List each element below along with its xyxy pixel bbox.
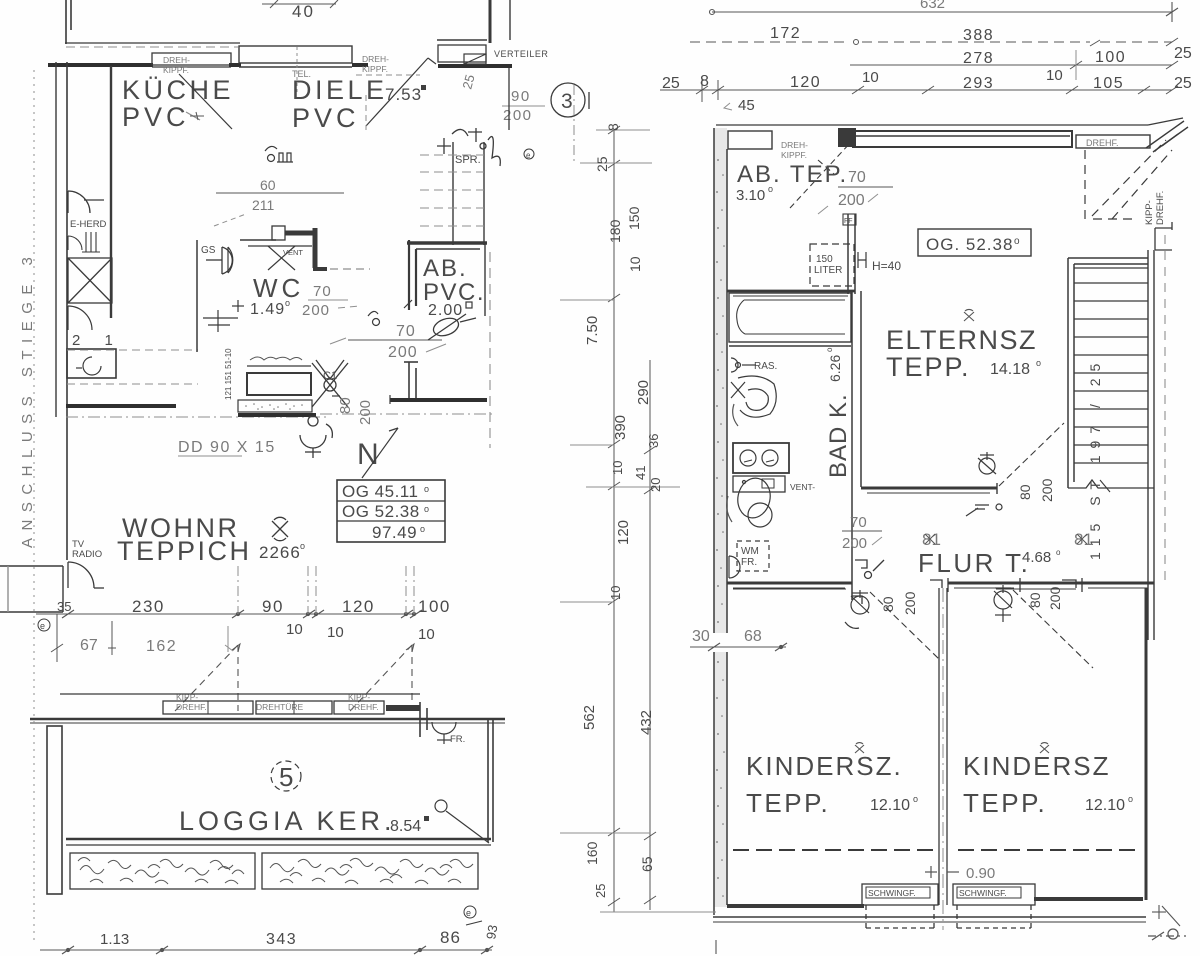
svg-text:SCHWINGF.: SCHWINGF. (868, 888, 916, 898)
svg-text:C1: C1 (323, 370, 337, 382)
svg-text:100: 100 (1095, 49, 1126, 66)
svg-text:DREH-: DREH- (781, 140, 808, 150)
node circle 3 (551, 83, 589, 117)
svg-text:8: 8 (700, 73, 709, 90)
col ticks (560, 126, 716, 912)
svg-text:200: 200 (842, 535, 867, 552)
kindersz divider wall (939, 588, 947, 905)
svg-text:25: 25 (662, 75, 680, 92)
svg-text:93: 93 (483, 924, 500, 941)
top wall band left window (728, 131, 772, 149)
wc dim 70 (308, 283, 348, 300)
label TV RADIO (72, 539, 102, 560)
label TEL. (292, 69, 311, 79)
svg-text:WC: WC (253, 273, 304, 303)
svg-text:25: 25 (1174, 75, 1192, 92)
svg-text:e: e (40, 621, 45, 631)
svg-text:KINDERSZ: KINDERSZ (963, 751, 1110, 781)
stair bottom with break (1068, 480, 1154, 492)
svg-text:90: 90 (511, 88, 531, 105)
wall corner top-right verticals (489, 0, 492, 43)
label C1 (323, 370, 337, 382)
x mark elternsz (964, 309, 974, 321)
x mark kindersz left (855, 743, 864, 753)
boiler dashed box (810, 244, 854, 286)
svg-text:DREHF.: DREHF. (348, 702, 379, 712)
svg-text:e: e (466, 908, 471, 918)
stove box with X (68, 258, 112, 303)
svg-text:LOGGIA KER.: LOGGIA KER. (179, 806, 396, 836)
E-HERD door arc (68, 191, 104, 213)
svg-text:97.49: 97.49 (372, 523, 417, 542)
wall top right segment (438, 64, 512, 68)
svg-text:7.50: 7.50 (584, 316, 601, 345)
svg-text:200: 200 (1039, 478, 1055, 502)
svg-text:120: 120 (342, 597, 375, 616)
wc east wall dark (313, 228, 318, 268)
label SCHWINGF right (959, 888, 1007, 898)
value 1.49 (250, 298, 290, 318)
switch box with slash (464, 54, 486, 64)
svg-text:10: 10 (627, 256, 643, 272)
svg-text:100: 100 (418, 597, 451, 616)
svg-text:200: 200 (503, 107, 533, 124)
x mark kindersz right (1040, 743, 1049, 753)
door swing diele (diagonal) (366, 58, 436, 126)
bottom left tick (715, 940, 717, 954)
wall diele right of window (352, 63, 368, 67)
wc inner top line (248, 245, 312, 247)
og area box (337, 480, 445, 542)
divider centerline (942, 588, 944, 930)
svg-text:70: 70 (396, 323, 416, 340)
kitchen counter upper lines (247, 365, 311, 367)
svg-text:388: 388 (963, 27, 994, 44)
svg-text:67: 67 (80, 637, 98, 654)
label LOGGIA KER (179, 806, 396, 836)
label 81 right (1074, 530, 1093, 549)
dash-dot lower (66, 416, 330, 418)
svg-text:PVC: PVC (122, 102, 190, 132)
wc dark wall top (285, 231, 313, 236)
svg-text:86: 86 (440, 928, 461, 947)
svg-text:14.18: 14.18 (990, 361, 1030, 378)
squiggles panel1 (78, 858, 244, 885)
dark sill wall right (334, 701, 384, 714)
svg-text:390: 390 (612, 415, 629, 440)
value 12.10 left (870, 794, 918, 814)
dim line 278/100 (850, 50, 1178, 80)
svg-text:30: 30 (692, 628, 710, 645)
svg-text:45: 45 (738, 97, 755, 114)
svg-text:SPR.: SPR. (455, 154, 481, 166)
faucet symbol left of wc (203, 300, 244, 332)
balcony dashed line right (958, 849, 1140, 851)
wall between windows (229, 63, 241, 67)
svg-text:1.49: 1.49 (250, 301, 285, 318)
right boundary dash (489, 252, 491, 448)
svg-text:DREH-: DREH- (362, 54, 389, 64)
top wall pillar (838, 128, 856, 147)
svg-text:DREHF.: DREHF. (1155, 191, 1166, 225)
svg-text:PVC: PVC (292, 103, 360, 133)
svg-text:o: o (420, 524, 425, 534)
svg-text:81: 81 (1074, 530, 1093, 549)
svg-text:10: 10 (286, 621, 303, 638)
wc dim 200 (302, 302, 330, 319)
washbasin (731, 376, 776, 426)
svg-text:10: 10 (418, 626, 435, 643)
bottom wall right segment (1034, 897, 1143, 901)
value 4.68 (1022, 548, 1061, 566)
label SCHWINGF left (868, 888, 916, 898)
rotated 80 200 right kdoor (1027, 586, 1063, 610)
kindersz left door swing (870, 592, 940, 660)
stair left rail (1068, 258, 1074, 488)
kindersz top wall left (727, 583, 852, 589)
bath door symbols (852, 560, 884, 604)
dim line 172/388 (690, 41, 1172, 43)
svg-text:20: 20 (648, 478, 663, 492)
wm fr dashed box (737, 541, 769, 571)
svg-text:160: 160 (584, 841, 600, 865)
col labels rotated (581, 123, 663, 898)
right wall lower (1145, 588, 1148, 900)
flur wall end caps (930, 578, 1082, 592)
lower unit box (733, 476, 785, 492)
shaft SPR verticals (453, 142, 484, 245)
ab tepp east wall (848, 214, 855, 294)
svg-text:DREHF.: DREHF. (176, 702, 207, 712)
svg-text:AB. TEP.: AB. TEP. (737, 161, 848, 188)
svg-text:o: o (424, 504, 429, 514)
label 150 LITER (814, 254, 842, 276)
labels 278 100 (963, 49, 1126, 67)
dash diag small (214, 214, 246, 226)
door arc wc (228, 247, 233, 273)
north arrow N (357, 428, 398, 478)
faint vertical tel line (296, 47, 298, 95)
svg-text:41: 41 (633, 466, 648, 480)
dash-dot lower right (320, 413, 492, 415)
door swing ab.tepp (790, 142, 851, 208)
svg-text:105: 105 (1093, 75, 1124, 92)
svg-text:WM: WM (741, 546, 759, 557)
label KINDERSZ left (746, 751, 903, 818)
svg-text:KÜCHE: KÜCHE (122, 75, 234, 105)
svg-text:TEPP.: TEPP. (886, 352, 971, 382)
vent X wc (268, 246, 303, 270)
door swing triangle right (350, 645, 412, 711)
window kueche (DREH-KIPPF) (152, 53, 231, 67)
svg-text:0.90: 0.90 (966, 865, 995, 882)
svg-text:10: 10 (1046, 67, 1063, 84)
H=40 (858, 252, 901, 273)
svg-text:12.10: 12.10 (870, 797, 910, 814)
label DREH-KIPPF kueche window (163, 55, 190, 75)
svg-text:432: 432 (638, 710, 655, 735)
fan cross symbol (312, 360, 348, 407)
svg-text:H=40: H=40 (872, 259, 901, 273)
speckles lower (716, 661, 725, 897)
svg-text:TEPP.: TEPP. (746, 788, 830, 818)
svg-text:LITER: LITER (814, 265, 842, 276)
schwingf box left (862, 884, 938, 928)
wc pillar box (272, 226, 285, 240)
svg-text:o: o (1128, 794, 1133, 804)
svg-text:65: 65 (639, 856, 655, 872)
svg-text:343: 343 (266, 931, 297, 948)
svg-text:60: 60 (260, 177, 276, 193)
gs sink symbol (206, 247, 232, 274)
squiggle on counter (250, 357, 302, 360)
svg-text:6.26: 6.26 (827, 355, 843, 382)
svg-text:o: o (768, 184, 773, 194)
label GS (201, 245, 216, 256)
svg-text:632: 632 (920, 0, 945, 12)
stair right rail (1148, 250, 1154, 640)
sink cabinet box (67, 349, 116, 378)
window diele big (239, 46, 352, 67)
ab tepp bottom wall (727, 291, 855, 296)
label AB. TEP. (737, 161, 848, 188)
og box row3 (372, 523, 425, 542)
svg-text:VENT-: VENT- (790, 482, 815, 492)
svg-text:25: 25 (593, 884, 608, 898)
elternsz door knob (978, 452, 996, 474)
ticks after PVC (190, 112, 204, 120)
window top-right box (438, 45, 486, 62)
window boxes row (163, 701, 332, 714)
dashdot risers to dim (238, 566, 414, 614)
small FF box (843, 214, 856, 225)
svg-text:BAD K.: BAD K. (825, 393, 852, 478)
left inner wall (66, 62, 68, 560)
svg-text:278: 278 (963, 50, 994, 67)
svg-text:8.54: 8.54 (390, 818, 421, 835)
svg-text:200: 200 (838, 192, 865, 209)
label KIPP-DREHF left (176, 692, 207, 712)
svg-text:TEPP.: TEPP. (963, 788, 1047, 818)
e mark bottom right (464, 906, 482, 925)
svg-text:8: 8 (605, 123, 621, 131)
svg-text:290: 290 (635, 380, 652, 405)
kueche door swing diagonal (179, 74, 232, 129)
svg-text:DREH-: DREH- (163, 55, 190, 65)
svg-text:25: 25 (594, 156, 610, 172)
rotated 80 (337, 397, 354, 414)
double sink unit (733, 443, 789, 473)
svg-text:10: 10 (608, 586, 623, 600)
labels 172 388 25 (770, 25, 1192, 62)
label DREH-KIPPF diele door (362, 54, 389, 74)
svg-text:80: 80 (1017, 484, 1033, 500)
kindersz left door knob (845, 590, 869, 628)
ab pvc top wall (407, 243, 487, 249)
svg-text:1.13: 1.13 (100, 931, 129, 948)
flur wall mid (948, 583, 1020, 588)
speckles upper (716, 159, 725, 623)
svg-text:36: 36 (646, 434, 661, 448)
svg-text:120: 120 (615, 520, 632, 545)
toilet symbol (300, 416, 332, 458)
mark 0.90 (925, 865, 995, 882)
svg-text:40: 40 (292, 2, 315, 21)
svg-text:200: 200 (357, 400, 374, 425)
label KIPP-DREHF right (348, 692, 379, 712)
label RAS. (754, 361, 777, 372)
svg-text:OG. 52.38: OG. 52.38 (926, 235, 1013, 254)
bottom right circle mark (1148, 929, 1186, 940)
schwingf box right (953, 884, 1035, 928)
label WOHNR TEPPICH (117, 513, 252, 566)
flur wall right (1082, 583, 1154, 588)
left outer wall (55, 62, 57, 417)
svg-text:RAS.: RAS. (754, 361, 777, 372)
kitchen east wall (110, 66, 112, 318)
label DREHF right window (1086, 138, 1119, 148)
rotated 25 near verteiler (459, 73, 477, 91)
bottom dim labels (100, 924, 500, 948)
svg-text:200: 200 (388, 344, 418, 361)
wall kueche top (48, 63, 153, 67)
wall cut diagonal top right (1146, 121, 1188, 152)
node 5 circle (271, 761, 301, 792)
shaft rungs (420, 155, 484, 243)
svg-text:OG 45.11: OG 45.11 (342, 482, 418, 501)
bathtub (729, 293, 851, 346)
wall under drain board (238, 413, 316, 417)
wall corner top-left vertical (66, 0, 71, 44)
bottom wall left segment (727, 904, 864, 908)
label KIPP-DREHF rotated (1144, 191, 1166, 225)
elternsz bottom wall (861, 483, 997, 494)
rotated 200 (357, 400, 374, 425)
svg-text:o: o (825, 347, 834, 352)
outer face line top (65, 42, 240, 44)
value 12.10 right (1085, 794, 1133, 814)
dim labels row (57, 597, 451, 643)
svg-text:VENT: VENT (283, 248, 303, 257)
svg-text:150: 150 (626, 206, 642, 230)
ab pvc door handle (368, 300, 412, 326)
balcony dashed line left (733, 849, 936, 851)
svg-text:7.53: 7.53 (385, 85, 422, 104)
tiny rotated col numbers (224, 348, 233, 400)
value 6.26 rotated (825, 347, 843, 382)
label KINDERSZ right (963, 751, 1110, 818)
top dim line 632 (710, 0, 1179, 22)
svg-text:10: 10 (610, 461, 625, 475)
small box top right (1155, 222, 1172, 250)
value 14.18 (990, 358, 1041, 378)
label 45 (724, 97, 755, 114)
svg-text:211: 211 (252, 197, 275, 213)
small arrows on swings (232, 644, 414, 652)
dimension 90/200 top right (502, 88, 545, 124)
svg-text:DREHTÜRE: DREHTÜRE (256, 702, 304, 712)
bath east wall (852, 291, 861, 600)
svg-text:o: o (1014, 236, 1020, 247)
dim line 60 (216, 177, 344, 213)
dots in drain board (245, 403, 303, 410)
label 81 left (922, 530, 941, 549)
og 52.38 text (926, 235, 1020, 254)
left protrusion walls (0, 566, 63, 612)
og box row1 (342, 482, 429, 501)
shower sketch (437, 128, 500, 166)
svg-text:180: 180 (607, 219, 623, 243)
long window band (853, 131, 1072, 147)
svg-text:293: 293 (963, 75, 994, 92)
svg-text:KIPPF.: KIPPF. (362, 64, 388, 74)
svg-text:562: 562 (581, 705, 598, 730)
ab pvc lower west wall (404, 362, 418, 398)
svg-text:5: 5 (279, 762, 293, 792)
value 2.00 (428, 302, 472, 319)
svg-text:ELTERNSZ: ELTERNSZ (886, 325, 1037, 355)
squiggles panel2 (270, 858, 473, 884)
svg-text:TEPPICH: TEPPICH (117, 536, 252, 566)
e circle dim (38, 619, 50, 631)
lower wall segment (390, 398, 487, 402)
rotated 80 200 left kdoor (880, 591, 918, 615)
svg-text:172: 172 (770, 25, 801, 42)
loggia slab double line (66, 839, 491, 845)
stair top (1068, 258, 1148, 264)
circle marker loggia (435, 800, 489, 843)
svg-text:200: 200 (902, 591, 918, 615)
svg-text:o: o (1036, 358, 1041, 368)
vertical dim line b (649, 360, 651, 910)
lower door arc (68, 306, 92, 330)
svg-text:162: 162 (146, 638, 177, 655)
value 7.53 (385, 85, 426, 104)
svg-text:o: o (424, 484, 429, 494)
svg-text:70: 70 (848, 169, 866, 186)
svg-text:DIELE: DIELE (292, 75, 388, 105)
svg-text:ANSCHLUSS STIEGE 3: ANSCHLUSS STIEGE 3 (19, 250, 36, 548)
og 52.38 box (918, 229, 1031, 256)
svg-text:70: 70 (850, 514, 867, 531)
value 2266 (259, 541, 305, 562)
speckled west wall upper (714, 128, 727, 633)
svg-text:N: N (357, 438, 379, 471)
door swing triangle left (175, 645, 238, 711)
rotated 80 200 elternsz door (1017, 478, 1055, 502)
svg-text:KIPPF.: KIPPF. (163, 65, 189, 75)
main dim line horizontal (36, 610, 422, 618)
ab pvc west wall double (409, 240, 416, 310)
svg-text:KIPPF.: KIPPF. (781, 150, 807, 160)
loggia right wall (488, 719, 493, 842)
label DD 90 X 15 (178, 439, 276, 456)
svg-text:KINDERSZ.: KINDERSZ. (746, 751, 903, 781)
main sill line full (30, 718, 505, 721)
razor outlet RAS (731, 358, 756, 372)
top outer face line (716, 118, 1183, 125)
og box row2 (342, 502, 429, 521)
wall stub below sink (66, 404, 176, 408)
label 2 1 (72, 332, 123, 349)
svg-text:SCHWINGF.: SCHWINGF. (959, 888, 1007, 898)
svg-text:150: 150 (816, 254, 833, 265)
svg-text:e: e (526, 151, 531, 160)
label DREH-KIPPF (right plan win1) (781, 140, 808, 160)
tv arc symbol (68, 562, 104, 588)
right shaft wall (508, 68, 510, 130)
wm arc (729, 556, 740, 578)
